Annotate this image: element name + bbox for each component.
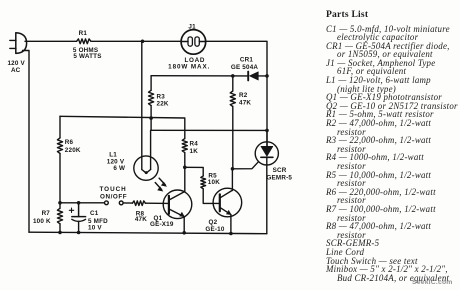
svg-text:GEMR-5: GEMR-5 <box>266 175 292 182</box>
svg-text:10K: 10K <box>208 179 220 186</box>
svg-text:R2: R2 <box>239 92 248 99</box>
svg-text:6 W: 6 W <box>113 165 125 172</box>
svg-text:J1: J1 <box>188 23 196 30</box>
svg-text:220K: 220K <box>65 147 81 154</box>
svg-text:R3: R3 <box>157 94 166 101</box>
svg-text:10 V: 10 V <box>88 225 102 232</box>
svg-text:22K: 22K <box>157 101 169 108</box>
svg-text:1K: 1K <box>190 148 199 155</box>
svg-text:5 WATTS: 5 WATTS <box>73 53 101 60</box>
svg-text:47K: 47K <box>135 216 147 223</box>
svg-text:AC: AC <box>11 67 21 74</box>
svg-text:TOUCH: TOUCH <box>99 186 126 193</box>
svg-text:100 K: 100 K <box>33 218 51 225</box>
svg-text:SCR: SCR <box>273 167 287 174</box>
svg-text:R4: R4 <box>190 140 199 147</box>
svg-text:120 V: 120 V <box>7 60 25 67</box>
svg-text:R1: R1 <box>79 30 88 37</box>
svg-text:R7: R7 <box>42 210 51 217</box>
svg-text:CR1: CR1 <box>240 57 253 64</box>
svg-text:GE-10: GE-10 <box>205 226 224 233</box>
svg-text:ON/OFF: ON/OFF <box>100 194 127 201</box>
svg-text:180W MAX.: 180W MAX. <box>168 63 210 70</box>
svg-text:L1: L1 <box>109 151 117 158</box>
svg-text:R6: R6 <box>65 139 74 146</box>
svg-text:47K: 47K <box>239 99 251 106</box>
svg-text:C1: C1 <box>90 210 99 217</box>
svg-text:GE-X19: GE-X19 <box>150 221 174 228</box>
svg-text:Q2: Q2 <box>208 219 217 226</box>
svg-text:GE 504A: GE 504A <box>231 64 259 71</box>
